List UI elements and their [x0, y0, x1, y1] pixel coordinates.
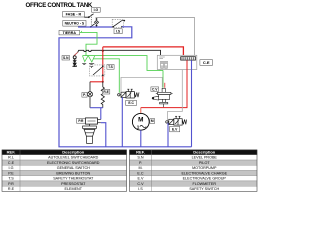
wire red riser to motor [140, 108, 142, 114]
svg-text:TIERRA: TIERRA [63, 31, 77, 35]
svg-text:M.: M. [138, 166, 142, 170]
svg-text:R.E: R.E [8, 187, 15, 191]
electrovalve group E.V symbol [166, 116, 187, 125]
svg-text:E.V: E.V [172, 127, 178, 131]
wire earth lower bus to E.C valve [93, 59, 119, 93]
svg-text:M: M [151, 119, 154, 123]
wire control link E.C to C.V (gray) [121, 77, 162, 92]
svg-text:P.R: P.R [8, 182, 14, 186]
svg-text:ELECTROVALVE CHARGE: ELECTROVALVE CHARGE [181, 171, 227, 175]
svg-text:AUTOLEVEL SWITCHBOARD: AUTOLEVEL SWITCHBOARD [48, 156, 99, 160]
general switch I.G neutral blade [91, 24, 95, 27]
junction red split [102, 81, 104, 83]
C.E internal marks [159, 57, 167, 68]
label P.R [77, 118, 86, 123]
level probe S.N symbol [73, 52, 78, 67]
svg-text:P.E: P.E [8, 171, 14, 175]
wire phase FASE-R to I.G switch [84, 16, 89, 18]
wire neutral P.R to bus [101, 123, 106, 147]
svg-text:FLOWMETER: FLOWMETER [192, 182, 216, 186]
motorpump M [132, 113, 149, 130]
level electrode hangers (green) [83, 56, 95, 62]
label I.G [92, 7, 101, 12]
label C.V [151, 87, 159, 91]
label S.N [62, 56, 70, 60]
level electrode B contact bars [89, 63, 94, 68]
earth tick at TIERRA [81, 31, 83, 33]
svg-text:ELEMENT: ELEMENT [65, 187, 83, 191]
svg-text:I.G: I.G [94, 8, 99, 12]
svg-text:REF.: REF. [7, 150, 16, 155]
flowmeter C.V red sense wire [164, 83, 166, 88]
node FASE - R (phase supply label) [63, 12, 85, 17]
svg-text:SAFETY SWITCH: SAFETY SWITCH [189, 187, 219, 191]
wire phase (gray) I.G to C.E [96, 18, 195, 56]
wire neutral NEUTRO-S to I.S [78, 26, 113, 28]
heating element R.E (zigzag) [101, 87, 104, 108]
svg-text:C.E: C.E [203, 60, 210, 65]
label P. [82, 93, 87, 98]
svg-text:LEVEL PROBE: LEVEL PROBE [192, 156, 218, 160]
svg-text:P.R: P.R [78, 119, 84, 123]
label M [150, 119, 155, 124]
svg-text:PRESSOSTAT: PRESSOSTAT [61, 182, 86, 186]
node TIERRA (earth supply label) [59, 30, 80, 35]
wire neutral C.E to bus [191, 60, 193, 147]
wire neutral lamp/element to P.R [90, 108, 103, 120]
svg-text:ELECTRONIC SWITCHBOARD: ELECTRONIC SWITCHBOARD [47, 161, 100, 165]
label E.C [126, 100, 137, 105]
svg-text:I.S: I.S [138, 187, 143, 191]
label R.E [102, 90, 109, 95]
svg-text:C.E: C.E [8, 161, 15, 165]
svg-text:S.N: S.N [137, 156, 143, 160]
safety switch I.S blade [113, 21, 122, 27]
svg-text:BREWING BUTTON: BREWING BUTTON [56, 171, 90, 175]
svg-text:T.S: T.S [8, 177, 14, 181]
safety switch I.S terminals [112, 20, 125, 28]
wire earth from TIERRA [80, 32, 97, 55]
svg-text:S.N: S.N [63, 56, 69, 60]
svg-text:SAFETY THERMOSTAT: SAFETY THERMOSTAT [53, 177, 94, 181]
label T.S [107, 65, 114, 70]
node NEUTRO - S (neutral supply label) [63, 21, 86, 27]
svg-text:R.E: R.E [103, 90, 109, 94]
svg-text:ELECTROVALVE GROUP: ELECTROVALVE GROUP [183, 177, 227, 181]
wire neutral motor to bus [140, 130, 142, 147]
svg-text:E.C: E.C [128, 101, 134, 105]
reference table left [2, 150, 127, 192]
electronic switchboard C.E box [157, 55, 197, 69]
svg-text:NEUTRO - S: NEUTRO - S [65, 22, 85, 26]
wire red C.E to motorpump M [141, 60, 187, 107]
wire earth stub into C.E [159, 69, 161, 70]
svg-text:C.V: C.V [137, 182, 144, 186]
reference table right [130, 150, 258, 192]
safety thermostat T.S blade [93, 65, 104, 76]
svg-text:MOTORPUMP: MOTORPUMP [192, 166, 217, 170]
svg-text:GENERAL SWITCH: GENERAL SWITCH [57, 166, 90, 170]
svg-text:PILOT: PILOT [199, 161, 210, 165]
svg-text:T.S: T.S [108, 65, 114, 69]
fuse diamond on I.G [94, 18, 98, 26]
wire neutral E.V to bus [167, 123, 169, 147]
wire neutral E.C to bus [121, 97, 123, 147]
svg-text:R.L: R.L [8, 156, 14, 160]
wire earth drop to flowmeter C.V [162, 70, 164, 87]
flowmeter C.V body [152, 88, 173, 104]
label E.V [170, 126, 180, 131]
wire red T.S to pilot/element split [90, 81, 103, 83]
wire neutral bus (I.S right, down, left side, bottom bus) [59, 27, 192, 147]
svg-text:P.: P. [139, 161, 142, 165]
flowmeter C.V drain stem [163, 104, 165, 107]
svg-text:Description: Description [62, 150, 85, 155]
svg-text:M: M [138, 116, 143, 123]
pressostat P.R body [83, 124, 97, 143]
safety switch I.S enclosure [112, 19, 124, 27]
label C.E [200, 60, 213, 66]
svg-text:I.S: I.S [116, 29, 121, 33]
safety thermostat T.S enclosure [90, 65, 105, 76]
svg-text:Description: Description [193, 150, 216, 155]
junction phase at I.G [88, 16, 90, 18]
wire phase S.N to C.E input [78, 50, 161, 55]
electrovalve charge E.C symbol [118, 89, 139, 98]
svg-text:C.V: C.V [152, 87, 158, 91]
wire red feed C.E to T.S [103, 47, 184, 82]
wire to pilot lamp [89, 82, 91, 92]
wire control link C.E to E.V (gray) [168, 70, 183, 121]
svg-text:I.G: I.G [9, 166, 14, 170]
junction phase-red tap [102, 50, 104, 52]
svg-text:E.V: E.V [138, 177, 144, 181]
C.E output connector [181, 57, 196, 60]
svg-text:OFFICE CONTROL TANK: OFFICE CONTROL TANK [26, 2, 93, 9]
wire T.S to element R.E [102, 82, 104, 87]
wire earth upper bus to C.E [83, 56, 164, 71]
junction neutral at I.G [90, 26, 92, 28]
svg-text:P.: P. [83, 93, 86, 97]
label I.S [114, 29, 122, 34]
svg-text:E.C: E.C [137, 171, 143, 175]
svg-text:REF.: REF. [136, 150, 145, 155]
general switch I.G phase blade [89, 14, 94, 17]
pressostat P.R pins [98, 119, 101, 122]
level electrode A contact bars [82, 63, 86, 64]
wire pilot lamp to neutral [89, 97, 91, 108]
general switch I.G mechanical link [90, 14, 92, 24]
svg-text:1: 1 [137, 125, 140, 130]
pressostat P.R contact box [86, 118, 98, 124]
svg-text:FASE - R: FASE - R [66, 13, 82, 17]
pilot lamp P [87, 92, 92, 97]
